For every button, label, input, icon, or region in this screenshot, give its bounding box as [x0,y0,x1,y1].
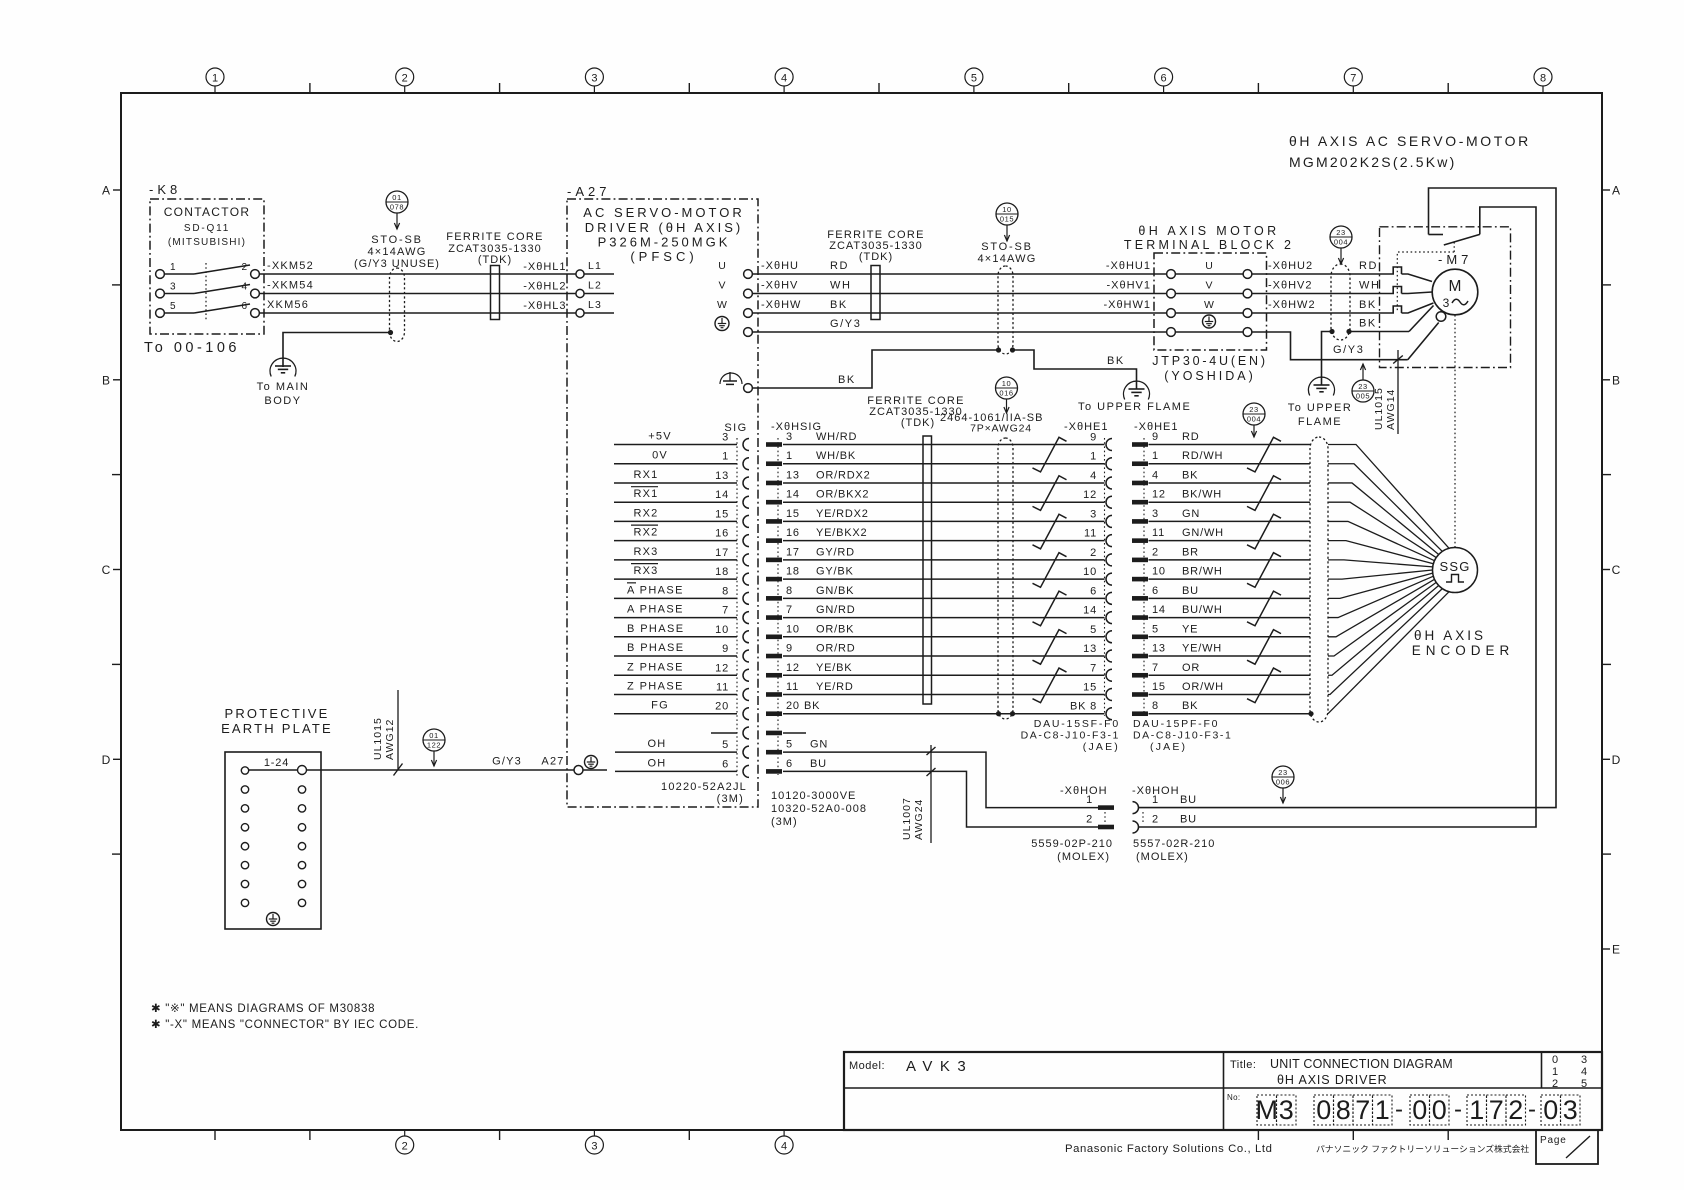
motor M7 designator [1438,252,1472,267]
driver signal row B PHASE pin 9 [614,642,737,656]
svg-text:005: 005 [1356,391,1370,400]
svg-text:-: - [1528,1096,1536,1123]
svg-text:6: 6 [1161,73,1167,85]
svg-text:BU: BU [1180,814,1197,826]
svg-text:OR/BK: OR/BK [816,623,854,635]
driver signal row A PHASE pin 7 [614,604,737,618]
svg-text:TERMINAL BLOCK 2: TERMINAL BLOCK 2 [1124,238,1294,252]
svg-text:G/Y3: G/Y3 [492,756,522,768]
SIG cable part no 10220-52A2JL (3M) [661,781,747,805]
svg-text:0: 0 [1543,1095,1558,1125]
svg-text:5: 5 [1581,1078,1587,1090]
thermal switch wire 1 (to XθHOH pin1) [1139,188,1556,808]
svg-text:A27: A27 [541,756,564,768]
dotted linkage thermal switch to windings [1397,242,1454,311]
svg-text:5557-02R-210: 5557-02R-210 [1133,838,1215,850]
top border zone numbers 1-8 [206,68,1552,93]
revision balloon 10/015 with arrow [996,203,1018,241]
svg-text:(3M): (3M) [717,793,744,805]
wire color label WH at motor [1359,280,1381,292]
driver PE output terminal [715,317,752,337]
svg-text:1: 1 [722,451,729,463]
driver PE terminal on A27 (G/Y3 from earth plate) [574,756,607,775]
svg-text:✱ "※" MEANS DIAGRAMS OF M30838: ✱ "※" MEANS DIAGRAMS OF M30838 [151,1003,375,1015]
svg-text:2: 2 [402,1141,408,1153]
encoder cable wire pin 16 YE/BKX2 [766,527,1105,543]
svg-text:(PFSC): (PFSC) [630,249,697,264]
encoder extension wire pin 14 BU/WH [1083,604,1310,620]
svg-text:DA-C8-J10-F3-1: DA-C8-J10-F3-1 [1021,730,1120,742]
svg-text:OH: OH [648,738,667,750]
driver signal row Z PHASE pin 11 [614,680,737,694]
svg-text:2: 2 [241,262,247,273]
protective earth plate heading [221,706,333,736]
svg-text:C: C [102,563,111,577]
svg-text:AWG14: AWG14 [1385,389,1397,430]
svg-text:-XθHV: -XθHV [761,280,798,292]
protective earth plate box [225,752,321,929]
svg-text:9: 9 [786,643,793,655]
svg-text:RX2: RX2 [634,507,659,519]
thermal switch inside motor [1429,215,1480,245]
svg-text:17: 17 [715,547,729,559]
svg-text:2: 2 [1090,547,1097,559]
svg-text:5: 5 [786,739,793,751]
svg-text:01: 01 [392,193,402,202]
svg-text:WH: WH [830,280,852,292]
driver signal row RX3 pin 17 [614,546,737,560]
svg-text:8: 8 [786,585,793,597]
svg-text:BR: BR [1182,546,1199,558]
svg-text:BK: BK [838,374,856,386]
encoder extension wire pin 9 RD [1090,431,1310,447]
svg-text:V: V [1205,280,1212,292]
connector XθHE1 headers [1064,421,1179,433]
encoder fan-in wires to SSG [1328,445,1449,714]
svg-text:θH AXIS: θH AXIS [1414,628,1486,643]
earth symbol: to upper flame (power shield) [1078,381,1191,413]
revision balloon 23/006 [1272,766,1294,803]
motor lead WH with splice bump [1393,287,1432,294]
driver signal spare row [711,732,737,734]
svg-text:6: 6 [786,758,793,770]
XθHE1 pin side (dotted gang) [1143,438,1145,716]
svg-text:13: 13 [715,470,729,482]
svg-text:1-24: 1-24 [264,757,289,769]
svg-text:3: 3 [1443,296,1450,310]
svg-text:P326M-250MGK: P326M-250MGK [598,235,731,250]
svg-text:4: 4 [1152,469,1159,481]
cable STO-SB 4x14AWG (motor side) label [977,241,1036,265]
svg-text:3: 3 [1090,508,1097,520]
svg-text:4×14AWG: 4×14AWG [977,253,1036,265]
XθHE1 socket side (dotted gang) [1105,438,1113,720]
svg-text:(JAE): (JAE) [1150,741,1187,753]
svg-text:14: 14 [1083,605,1097,617]
connector part no 5559-02P-210 (MOLEX) [1031,838,1113,863]
svg-text:Page: Page [1540,1135,1567,1146]
svg-text:16: 16 [786,527,800,539]
SIG connector sockets (dotted gang line) [737,438,749,778]
svg-text:BK: BK [1359,318,1377,330]
svg-text:3: 3 [1152,508,1159,520]
svg-text:4: 4 [1581,1066,1587,1078]
svg-text:17: 17 [786,546,800,558]
svg-text:WH: WH [1359,280,1381,292]
svg-text:OR: OR [1182,662,1200,674]
svg-text:CONTACTOR: CONTACTOR [164,205,251,219]
svg-text:14: 14 [1152,604,1166,616]
encoder extension wire pin 13 YE/WH [1083,643,1310,659]
svg-text:0V: 0V [652,450,668,462]
connector XθHOH headers [1060,785,1180,797]
svg-text:WH/BK: WH/BK [816,450,856,462]
earth plate terminal circles [241,786,305,907]
svg-text:RD: RD [1182,431,1200,443]
svg-text:8: 8 [1336,1095,1351,1125]
svg-text:RX2: RX2 [634,527,659,539]
svg-text:15: 15 [715,508,729,520]
wire BK shield drain from driver to upper-frame earth [752,350,1136,390]
wire XKM56 from contactor to driver L3 [259,299,576,313]
svg-text:3: 3 [591,1141,597,1153]
wire G/Y3 earth plate to driver A27 [307,756,575,771]
svg-text:RX1: RX1 [634,488,659,500]
contactor K8 pole 3-4 [156,282,260,298]
connector part names DAU-15SF-F0 / DAU-15PF-F0 (JAE) [1021,718,1233,753]
svg-text:23: 23 [1336,228,1346,237]
svg-text:6: 6 [722,758,729,770]
svg-text:-XθHW: -XθHW [761,299,801,311]
motor lead RD with splice bump [1393,267,1432,282]
servo driver A27 designator [567,184,610,199]
driver input terminal L2 [523,280,614,298]
wire BK (motor frame) from shield to motor [1349,306,1434,332]
encoder cable wire pin 15 YE/RDX2 [766,508,1105,524]
driver signal row OH pin 6 [615,757,737,771]
svg-text:BU/WH: BU/WH [1182,604,1223,616]
svg-text:W: W [1204,299,1214,311]
driver input terminal L1 [523,260,614,278]
svg-text:パナソニック ファクトリーソリューションズ株式会社: パナソニック ファクトリーソリューションズ株式会社 [1316,1143,1529,1154]
encoder title [1412,628,1515,658]
svg-text:1: 1 [1375,1095,1390,1125]
cable sheath oval (encoder cable 2) [1310,437,1328,722]
earth symbol: to main body [257,358,310,407]
cable sheath oval (STO-SB power cable 1) [390,268,405,342]
encoder SSG circle [1433,548,1478,593]
svg-text:1: 1 [1152,794,1159,806]
svg-text:RX1: RX1 [634,469,659,481]
svg-text:5: 5 [1152,623,1159,635]
svg-text:DAU-15SF-F0: DAU-15SF-F0 [1034,718,1120,730]
svg-text:2: 2 [1552,1078,1558,1090]
svg-text:01: 01 [429,731,439,740]
svg-text:STO-SB: STO-SB [981,241,1033,253]
svg-text:11: 11 [1152,527,1165,539]
svg-text:11: 11 [1084,528,1097,540]
contactor mechanical link (dotted) [205,263,207,320]
svg-text:ENCODER: ENCODER [1412,643,1515,658]
svg-text:16: 16 [715,528,729,540]
svg-text:M: M [1256,1095,1279,1125]
driver input terminal L3 [523,299,614,317]
encoder extension wire pin 12 BK/WH [1083,489,1310,505]
svg-text:Panasonic Factory Solutions Co: Panasonic Factory Solutions Co., Ltd [1065,1143,1272,1155]
motor frame terminal circle [1436,312,1446,322]
wire -XθHV2 terminal block to motor [1252,280,1393,294]
svg-text:3: 3 [786,431,793,443]
svg-text:BU: BU [810,758,827,770]
cable STO-SB 4x14AWG (power, contactor side) label [354,234,440,270]
shield dot on encoder cable 2 [1308,711,1313,716]
revision balloon 01/078 with arrow [386,191,408,229]
encoder cable wire pin 18 GY/BK [766,566,1105,582]
terminal block PE row [1167,315,1252,336]
svg-text:GN: GN [1182,508,1200,520]
svg-text:OH: OH [648,757,667,769]
svg-text:-XθHW1: -XθHW1 [1103,299,1151,311]
wire color label BK at motor [1359,299,1377,311]
svg-text:7: 7 [1090,662,1097,674]
svg-text:FERRITE CORE: FERRITE CORE [446,231,544,243]
cable spec leader UL1007 AWG24 [901,745,936,843]
revision balloon 01/122 [423,729,445,766]
heading: theta-H axis AC servo-motor [1289,133,1531,170]
svg-text:3: 3 [722,432,729,444]
svg-text:(TDK): (TDK) [478,254,512,266]
motor terminal block 2 box [1154,253,1267,350]
cable sheath oval (motor cable) [1331,264,1350,340]
svg-text:-XθHW2: -XθHW2 [1268,299,1316,311]
wire -XθHW (BK) driver to motor terminal block [752,299,1167,313]
svg-text:Model:: Model: [849,1060,885,1072]
svg-text:(3M): (3M) [771,816,798,828]
svg-text:To 00-106: To 00-106 [144,340,240,356]
svg-text:C: C [1612,563,1621,577]
svg-text:G/Y3: G/Y3 [1333,344,1364,356]
svg-text:10320-52A0-008: 10320-52A0-008 [771,803,867,815]
svg-text:-XθHL1: -XθHL1 [523,261,566,273]
revision balloon 23/005 with arrow up [1352,364,1374,402]
svg-text:4: 4 [781,73,787,85]
title block revision grid [1552,1054,1587,1090]
twisted pair marks (encoder cable 1) [1033,437,1067,702]
svg-text:5: 5 [1090,624,1097,636]
svg-text:-XθHL2: -XθHL2 [523,281,566,293]
svg-text:-XθHU1: -XθHU1 [1106,260,1151,272]
svg-text:9: 9 [1152,431,1159,443]
svg-text:-K8: -K8 [149,182,181,197]
wire label -XθHW1 [1103,299,1151,311]
svg-text:DRIVER (θH AXIS): DRIVER (θH AXIS) [585,220,744,235]
svg-text:E: E [1612,943,1620,957]
driver signal row RX2 pin 15 [614,507,737,521]
terminal block row W [1167,299,1252,317]
svg-text:5: 5 [722,739,729,751]
svg-text:13: 13 [786,469,800,481]
contactor K8 pole 1-2 [156,262,260,278]
svg-text:004: 004 [1247,414,1261,423]
svg-text:PROTECTIVE: PROTECTIVE [224,706,329,721]
svg-text:23: 23 [1278,768,1288,777]
svg-text:0: 0 [1412,1095,1427,1125]
left border row letters A-D [102,184,121,855]
svg-text:-XKM54: -XKM54 [267,280,314,292]
motor shaft dotted line to encoder [1454,315,1456,547]
svg-text:9: 9 [1090,432,1097,444]
svg-text:3: 3 [170,282,176,293]
svg-text:BK 8: BK 8 [1070,701,1097,713]
svg-text:8: 8 [722,585,729,597]
svg-text:D: D [102,753,111,767]
svg-text:078: 078 [390,202,404,211]
shield drain wire to main body earth [283,330,393,367]
cable 2464-1061/IIA-SB 7PxAWG24 label [940,412,1043,435]
svg-text:GN/WH: GN/WH [1182,527,1224,539]
svg-text:BK: BK [1107,355,1125,367]
title block model [849,1058,973,1075]
svg-text:OR/WH: OR/WH [1182,681,1224,693]
svg-text:EARTH PLATE: EARTH PLATE [221,721,333,736]
svg-text:-M7: -M7 [1438,252,1472,267]
svg-text:DAU-15PF-F0: DAU-15PF-F0 [1133,718,1219,730]
svg-text:V: V [718,280,725,292]
svg-text:G/Y3: G/Y3 [830,318,861,330]
driver signal row RX1 pin 14 [614,487,737,503]
svg-text:15: 15 [786,508,800,520]
right border row letters A-E [1602,184,1621,957]
svg-text:GN: GN [810,739,828,751]
svg-text:0: 0 [1432,1095,1447,1125]
svg-text:YE/BKX2: YE/BKX2 [816,527,867,539]
svg-text:122: 122 [427,740,441,749]
svg-text:5559-02P-210: 5559-02P-210 [1031,838,1113,850]
svg-text:B PHASE: B PHASE [627,642,685,654]
encoder cable wire pin 7 GN/RD [766,604,1105,620]
svg-text:BK: BK [1182,469,1198,481]
svg-text:OR/BKX2: OR/BKX2 [816,489,869,501]
svg-text:(MITSUBISHI): (MITSUBISHI) [168,237,246,248]
revision balloon 23/004 (encoder extension) [1243,403,1265,437]
driver signal row RX1 pin 13 [614,469,737,483]
svg-text:L2: L2 [588,280,602,292]
svg-text:To UPPER: To UPPER [1288,402,1353,414]
revision balloon 10/016 [996,377,1018,413]
svg-text:1: 1 [1090,451,1097,463]
svg-text:BK/WH: BK/WH [1182,489,1222,501]
svg-text:RD: RD [1359,260,1378,272]
motor lead BK with splice bump [1393,303,1433,313]
svg-text:-: - [1454,1096,1462,1123]
svg-text:To UPPER FLAME: To UPPER FLAME [1078,401,1191,413]
wire label -XθHV1 [1106,280,1151,292]
svg-text:6: 6 [1090,585,1097,597]
svg-text:AVK3: AVK3 [906,1058,973,1075]
svg-text:016: 016 [999,388,1013,397]
svg-text:3: 3 [1581,1054,1587,1066]
cable spec leader UL1015 AWG12 [372,690,403,776]
svg-text:GN/RD: GN/RD [816,604,855,616]
svg-text:15: 15 [1083,681,1097,693]
connector part no 5557-02R-210 (MOLEX) [1133,838,1215,863]
svg-text:5: 5 [971,73,977,85]
svg-text:OR/RDX2: OR/RDX2 [816,469,871,481]
svg-text:1: 1 [1552,1066,1558,1078]
svg-text:23: 23 [1358,382,1368,391]
svg-text:10: 10 [1083,566,1097,578]
svg-text:12: 12 [715,662,729,674]
svg-text:1: 1 [170,262,176,273]
svg-text:UNIT CONNECTION DIAGRAM: UNIT CONNECTION DIAGRAM [1270,1057,1453,1071]
svg-text:MGM202K2S(2.5Kw): MGM202K2S(2.5Kw) [1289,154,1456,170]
svg-text:(YOSHIDA): (YOSHIDA) [1164,369,1256,383]
svg-text:20: 20 [786,700,800,712]
terminal block row U [1167,260,1252,278]
driver signal connector SIG header [724,421,822,434]
svg-text:BK: BK [830,299,848,311]
earth symbol: to upper flame (motor shield) [1288,377,1353,428]
revision balloon 23/004 (motor cable) [1330,226,1352,264]
svg-text:YE/BK: YE/BK [816,662,852,674]
svg-text:004: 004 [1334,237,1348,246]
shield drain dots on cable 2 [996,347,1015,352]
encoder cable wire pin 3 WH/RD [766,431,1105,447]
svg-text:DA-C8-J10-F3-1: DA-C8-J10-F3-1 [1133,730,1232,742]
driver signal row +5V pin 3 [614,431,737,445]
svg-text:2: 2 [1086,814,1093,826]
driver signal row OH pin 5 [615,738,737,752]
svg-text:10: 10 [1002,205,1012,214]
svg-text:M: M [1449,278,1462,295]
svg-text:WH/RD: WH/RD [816,431,857,443]
svg-text:10120-3000VE: 10120-3000VE [771,790,856,802]
svg-text:7: 7 [722,605,729,617]
svg-text:BK: BK [1182,700,1198,712]
svg-text:Z PHASE: Z PHASE [627,661,684,673]
svg-text:BU: BU [1182,585,1199,597]
svg-text:+5V: +5V [648,431,671,443]
encoder extension wire pin 1 RD/WH [1090,450,1310,466]
svg-text:2: 2 [1508,1095,1523,1125]
svg-text:1: 1 [1152,450,1159,462]
thermal switch wire 2 (to XθHOH pin2) [1139,207,1536,827]
svg-text:B: B [102,373,110,387]
wire -XθHU (RD) driver to motor terminal block [752,260,1167,274]
svg-text:2: 2 [1152,546,1159,558]
svg-text:14: 14 [715,489,729,501]
svg-text:15: 15 [1152,681,1166,693]
driver signal row Z PHASE pin 12 [614,661,737,675]
svg-text:10: 10 [1152,566,1166,578]
company name [1065,1143,1529,1155]
svg-text:3: 3 [1279,1095,1294,1125]
contactor K8 pole 5-6 [156,301,260,317]
svg-text:BU: BU [1180,794,1197,806]
svg-text:4: 4 [1090,470,1097,482]
svg-text:BK: BK [1359,299,1377,311]
svg-text:θH AXIS MOTOR: θH AXIS MOTOR [1138,224,1279,238]
svg-text:Title:: Title: [1230,1059,1256,1071]
svg-text:14: 14 [786,489,800,501]
OH wire pin 6 BU to XθHOH [766,758,1098,827]
servo driver A27 box [567,199,758,807]
svg-text:AWG12: AWG12 [384,719,396,760]
cable sheath oval (STO-SB power cable 2) [998,266,1013,354]
cable sheath oval (encoder cable 1) [998,438,1013,719]
wire -XKM52 from contactor to driver L1 [259,260,576,274]
svg-text:-A27: -A27 [567,184,610,199]
